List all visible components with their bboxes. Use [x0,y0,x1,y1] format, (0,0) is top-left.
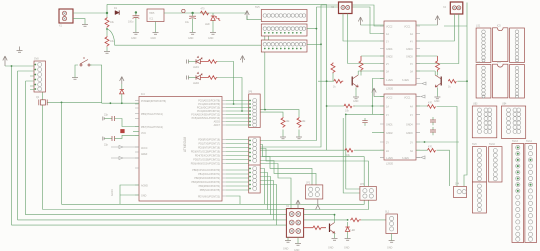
ground [389,241,395,243]
resistor R pulldown1 [261,112,291,136]
connector JP1 [306,182,323,200]
wire [326,4,328,150]
svg-text:PD2(INT0/PCINT18): PD2(INT0/PCINT18) [198,147,220,150]
svg-text:PD7(AIN1/PCINT23): PD7(AIN1/PCINT23) [198,196,220,199]
socket U$1 body [492,28,507,62]
svg-text:GND: GND [188,37,194,40]
wire battery sense [107,29,269,45]
connector SV14 tall right [525,140,537,243]
wire [361,219,386,221]
ground [332,239,338,241]
label box [237,183,244,190]
resistor R input2 [345,148,353,152]
svg-text:SV9: SV9 [472,143,477,146]
node junction [326,105,328,107]
wire header drop joins [276,157,278,159]
resistor R1 [105,17,109,28]
svg-text:GND4: GND4 [406,124,413,127]
LED3 [345,222,355,239]
wire [260,149,368,187]
node junction [106,12,108,14]
svg-text:SV10: SV10 [489,143,496,146]
arrow net flag left2 [111,157,139,160]
wire [18,71,34,220]
wire [416,56,438,76]
svg-text:JP6: JP6 [248,91,253,94]
svg-text:470: 470 [201,8,206,11]
supply symbol VCC [245,11,249,20]
diode D2 reset [120,84,124,103]
wire [416,141,459,143]
node junction [61,102,63,104]
ground [295,244,301,246]
wire [30,76,34,90]
supply symbol [296,200,300,209]
crystal Q1 [36,96,47,105]
resistor R led1 [200,60,217,64]
resistor R pullup base [331,63,335,74]
svg-text:AREF: AREF [141,153,148,156]
wire [416,14,459,64]
IC ATMEGA8 [135,93,226,201]
connector X1 [59,9,73,28]
svg-text:GND4: GND4 [406,48,413,51]
connector SV11 [472,182,486,213]
svg-text:1A: 1A [386,106,389,109]
capacitor C xtal1 [103,114,139,127]
svg-text:IC4: IC4 [141,93,145,96]
capacitor C right1 [430,117,436,125]
wire [73,19,85,24]
svg-text:ATMEGA8: ATMEGA8 [183,137,187,152]
supply symbol [358,17,362,25]
svg-text:GND: GND [387,247,393,250]
svg-text:GND: GND [434,100,440,103]
svg-text:4A: 4A [410,33,413,36]
node junction [241,110,243,112]
svg-text:JP1: JP1 [306,182,311,185]
svg-text:22p: 22p [104,114,109,117]
svg-text:GND2: GND2 [386,132,393,135]
wire reset line [102,102,139,104]
resonator Q2 [120,129,124,133]
diode D1 [114,7,119,15]
svg-text:AGND: AGND [111,189,114,196]
svg-text:470: 470 [428,146,433,149]
resistor R led2 [200,76,217,80]
wire jp8 drops [260,169,276,226]
svg-text:PB3(MOSI/OC2A/PCINT3): PB3(MOSI/OC2A/PCINT3) [191,181,220,184]
svg-text:GND: GND [131,37,137,40]
svg-text:VCC: VCC [141,132,146,135]
node junction [11,65,13,67]
capacitor C right2 [430,127,436,135]
arrow net flag [416,82,426,85]
svg-text:LED: LED [351,229,356,232]
svg-text:PD1(TXD/PCINT17): PD1(TXD/PCINT17) [198,143,220,146]
svg-text:SV5: SV5 [255,6,260,9]
ground [190,33,196,35]
connector SL1 servo [385,211,397,234]
wire [260,157,312,185]
svg-text:GND3: GND3 [406,132,413,135]
resistor R input1 [344,104,354,108]
svg-text:PB5(SCK/PCINT5): PB5(SCK/PCINT5) [200,189,220,192]
svg-text:1-2EN: 1-2EN [386,79,393,82]
svg-text:2Y: 2Y [386,142,389,145]
svg-text:3Y: 3Y [410,142,413,145]
wire bus3 [26,214,335,216]
socket U$2 right pads [510,65,525,99]
svg-text:AVCC: AVCC [141,147,148,150]
pushbutton S1 [75,57,92,72]
ground [72,78,78,80]
svg-text:GND: GND [344,247,350,250]
resistor R out right2 [428,148,436,152]
wire mcu to jp7 [226,140,249,164]
socket U$1 right pads [510,28,525,63]
wire mcu to jp8 [226,170,249,190]
svg-text:LS2: LS2 [476,61,481,64]
wire [361,24,438,26]
svg-text:VCC2: VCC2 [386,26,393,29]
LED row2 [187,72,203,85]
svg-text:VCC1: VCC1 [404,97,411,100]
wire bus5 [12,224,287,226]
supply symbol [372,88,376,97]
wire EN chain [372,79,384,115]
wire [361,56,384,76]
svg-text:4Y: 4Y [410,114,413,117]
wire [343,117,384,119]
svg-text:100u: 100u [128,21,134,24]
ground [296,137,302,139]
wire [348,14,384,64]
arrow net flag [416,156,425,159]
wire [374,96,384,98]
svg-text:SV14: SV14 [526,140,533,143]
svg-text:PB0(ICP1/CLKO/PCINT0): PB0(ICP1/CLKO/PCINT0) [192,169,220,172]
svg-text:U$4: U$4 [502,103,507,106]
svg-text:GND: GND [283,248,289,251]
svg-text:L293D: L293D [386,88,393,91]
IC IC2 L293D motor driver [380,21,420,91]
ground [82,25,88,27]
ground [153,33,159,35]
node junction [334,214,336,216]
resistor R q3 base [304,226,326,230]
wire [260,145,364,187]
svg-text:GND1: GND1 [386,48,393,51]
svg-text:L293D: L293D [386,163,393,166]
svg-text:3A: 3A [410,150,413,153]
wire AGND GND [120,185,139,204]
svg-text:POWER(INT0/PCINT6): POWER(INT0/PCINT6) [141,100,166,103]
node junction [106,28,108,30]
supply symbol [120,77,124,84]
wire drop to JP3 [343,118,360,193]
svg-text:IC1: IC1 [150,18,154,21]
socket U$2 body [492,64,507,98]
node junction [326,80,328,82]
connector JP6 [248,91,260,128]
connector JP4 small [454,183,467,198]
connector SV10 [489,143,502,182]
svg-text:GND: GND [353,100,359,103]
connector JP3 [360,183,376,200]
node junction [345,114,347,116]
ground [285,241,291,243]
svg-text:SV13: SV13 [512,140,519,143]
svg-text:SV8: SV8 [34,58,39,61]
svg-text:4Y: 4Y [410,41,413,44]
svg-text:LS1: LS1 [476,25,481,28]
wire [372,131,384,133]
connector JP8 [249,165,261,193]
svg-text:2A: 2A [386,71,389,74]
LED1 power [205,13,220,32]
wire [343,14,384,42]
connector JP7 [249,137,261,166]
svg-text:VCC1: VCC1 [404,26,411,29]
svg-text:GND: GND [141,195,147,198]
resistor R pulldown2 [261,110,307,137]
svg-text:AGND: AGND [141,185,148,188]
svg-text:VCC2: VCC2 [386,97,393,100]
wire [457,80,467,82]
connector U$3 [472,103,497,138]
connector X4 [450,2,463,14]
wire [164,12,247,14]
wire bus2 [43,200,369,209]
svg-text:1A: 1A [386,33,389,36]
svg-text:470: 470 [428,102,433,105]
node junction [233,103,235,105]
svg-text:IC5: IC5 [497,25,501,28]
capacitor C1 [128,13,139,33]
capacitor C xtal2 [103,135,139,146]
transistor T2 [416,71,441,103]
voltage regulator IC1 [147,9,164,33]
svg-text:1Y: 1Y [386,41,389,44]
arrow net flag [416,95,425,98]
svg-text:PB6(XTAL1/TOSC1): PB6(XTAL1/TOSC1) [141,113,163,116]
wire bus4 [18,219,348,221]
svg-text:ADC7: ADC7 [214,124,221,127]
svg-text:PD3(INT1/OC2B/PCINT19): PD3(INT1/OC2B/PCINT19) [191,151,220,154]
wire [346,113,384,115]
wire [106,47,108,51]
svg-text:LED2: LED2 [193,82,200,85]
node junction [110,102,112,104]
svg-text:4A: 4A [410,106,413,109]
wire [73,12,107,14]
wire drop to JP3 [346,114,360,189]
wire [260,149,384,151]
socket U$2 left pads [476,65,491,99]
resistor R vertical right of IC2 [436,56,440,72]
node circle [182,9,185,12]
wire [5,66,34,225]
svg-text:1-2EN: 1-2EN [386,157,393,160]
connector SV7 row3 [261,40,307,52]
svg-text:3Y: 3Y [410,63,413,66]
ground [345,239,351,241]
svg-text:10u: 10u [185,21,190,24]
wire [106,28,108,36]
svg-text:GND1: GND1 [386,124,393,127]
wire VCC stub [133,131,139,133]
svg-text:1Y: 1Y [386,114,389,117]
supply symbol [435,16,439,26]
svg-text:7805: 7805 [149,12,155,15]
svg-text:PB1(OC1A/PCINT1): PB1(OC1A/PCINT1) [198,173,220,176]
wire [217,78,242,112]
resistor R out right [428,105,436,109]
wire [444,25,467,27]
svg-text:PB2(SS/OC1B/PCINT2): PB2(SS/OC1B/PCINT2) [194,177,220,180]
capacitor C9 [362,118,367,126]
ground [280,137,286,139]
svg-text:GND: GND [328,247,334,250]
wire [327,105,384,107]
connector SV5 row1 [261,10,307,22]
wire mcu to jp6 [226,101,249,126]
resistor R base [334,79,343,83]
svg-text:JP4: JP4 [455,183,460,186]
wire [48,101,140,103]
capacitor C2 [185,13,196,32]
wire [255,164,291,209]
wire [92,65,102,103]
svg-text:2Y: 2Y [386,63,389,66]
wire [416,150,449,186]
svg-text:PB4(MISO/PCINT4): PB4(MISO/PCINT4) [199,185,221,188]
svg-text:PB7(XTAL2/TOSC2): PB7(XTAL2/TOSC2) [141,126,163,129]
svg-text:JP3: JP3 [360,183,365,186]
wire crystal drop [61,102,63,204]
wire VIN top rail [107,3,327,5]
wire [332,73,334,81]
capacitor C topleft [17,47,23,53]
wire [26,81,34,215]
ground [104,52,110,54]
wire [260,5,384,147]
wire mcu pd7 [226,196,240,204]
wire [106,4,108,17]
ground [133,33,139,35]
resistor R3 [201,11,209,15]
connector X3 [339,2,353,14]
socket U$1 left pads [476,28,491,63]
svg-text:PD4(T0/XCK/PCINT20): PD4(T0/XCK/PCINT20) [195,155,220,158]
svg-text:LED: LED [205,23,210,26]
resistor R servo [350,218,361,222]
node junction [424,141,426,143]
svg-text:GND: GND [151,37,157,40]
transistor T3 [330,215,335,238]
node junction [347,219,349,221]
wire [318,80,334,82]
arrow net flag left1 [111,146,139,149]
node junction [135,11,137,13]
svg-text:PD6(AIN0/OC0A/PCINT22): PD6(AIN0/OC0A/PCINT22) [191,163,220,166]
svg-text:GND2: GND2 [386,56,393,59]
resistor R base right [448,79,456,83]
supply symbol near LEDs [240,56,244,63]
LED row1 [187,56,203,69]
supply symbol [3,56,7,66]
wire bus1 [62,200,365,204]
IC IC3 L293D motor driver [380,94,420,166]
node junction [372,105,374,107]
wire [260,161,316,185]
node junction [264,109,266,111]
wire [416,14,454,41]
ground arrow down [316,199,320,209]
svg-text:GND: GND [208,37,214,40]
svg-text:IC6: IC6 [497,61,501,64]
connector X2 power terminal [286,205,304,237]
transistor T1 [352,71,384,103]
svg-text:3-4EN: 3-4EN [402,79,409,82]
wire pin drop [264,30,266,110]
wire [42,92,44,210]
svg-text:3-4EN: 3-4EN [402,157,409,160]
connector SV9 [472,143,486,182]
svg-text:PD0(RXD/PCINT16): PD0(RXD/PCINT16) [198,139,220,142]
svg-text:SL1: SL1 [385,211,390,214]
svg-text:GND3: GND3 [406,56,413,59]
wire long right vertical [464,3,467,187]
wire [416,106,457,186]
resistor R2 [105,36,109,47]
connector SV8 [34,58,46,93]
wire [260,7,384,141]
wire [247,16,261,20]
svg-text:3A: 3A [410,71,413,74]
svg-text:2A: 2A [386,150,389,153]
node junction [191,12,193,14]
node junction [466,80,468,82]
svg-text:22p: 22p [104,144,109,147]
wire crystal to mcu [48,101,102,103]
connector U$4 [501,103,525,139]
resistor R vertical left of IC2 [359,56,363,72]
svg-text:LED1: LED1 [193,66,200,69]
connector SV13 tall left [512,140,524,243]
node junction [121,102,123,104]
svg-text:PD5(T1/OC0B/PCINT21): PD5(T1/OC0B/PCINT21) [193,159,220,162]
wire [217,62,233,105]
svg-text:U$3: U$3 [473,103,478,106]
ground [210,33,216,35]
connector SV6 row2 [261,24,307,36]
